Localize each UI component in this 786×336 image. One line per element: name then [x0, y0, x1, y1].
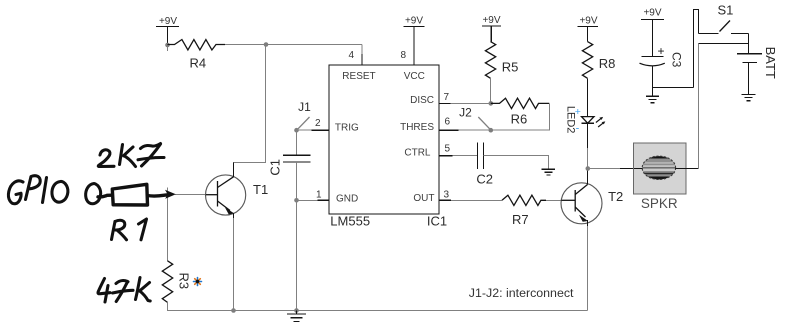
ground symbol at C3: [646, 88, 659, 103]
svg-text:DISC: DISC: [410, 95, 434, 106]
svg-text:+9V: +9V: [579, 16, 597, 27]
junction J1 node: [294, 128, 299, 133]
capacitor C2: [476, 143, 493, 187]
svg-text:+9V: +9V: [159, 16, 177, 27]
svg-text:THRES: THRES: [400, 122, 434, 133]
power +9V supply for R5: [482, 15, 501, 42]
wire SPKR left terminal: [588, 168, 621, 170]
svg-text:OUT: OUT: [413, 193, 434, 204]
ground rail wire: [234, 310, 588, 312]
resistor R5: [485, 42, 518, 79]
junction GND node: [294, 198, 299, 203]
svg-text:8: 8: [400, 50, 406, 61]
pin 8 VCC stub: [400, 50, 413, 65]
wire battery minus to ground: [748, 63, 750, 95]
svg-text:+: +: [657, 44, 664, 58]
wire OUT to R7: [451, 199, 502, 201]
wire TRIG to J1: [297, 129, 312, 131]
handwritten arrowhead into base wire: [165, 190, 176, 199]
junction T1 emitter rail: [231, 308, 236, 313]
jumper J2: [459, 106, 490, 130]
svg-text:+9V: +9V: [405, 16, 423, 27]
wire CTRL to C2: [452, 155, 477, 157]
pin 2 TRIG stub: [311, 118, 329, 130]
wire LED2 to T2 collector junction: [587, 123, 589, 148]
resistor R6: [491, 98, 550, 126]
svg-text:BATT: BATT: [763, 47, 778, 79]
svg-text:7: 7: [444, 92, 450, 103]
wire base net to R3: [175, 194, 206, 196]
handwritten resistor R1 (box): [98, 184, 169, 205]
resistor R4: [168, 40, 226, 71]
svg-text:4: 4: [348, 50, 354, 61]
capacitor C1: [268, 155, 311, 175]
svg-text:CTRL: CTRL: [404, 147, 431, 158]
capacitor C3: [640, 44, 684, 68]
battery BATT: [737, 47, 778, 79]
svg-text:+9V: +9V: [643, 8, 661, 19]
IC U1 LM555 body: [329, 65, 439, 214]
resistor R3: [162, 261, 191, 303]
ground symbol at C2: [542, 169, 555, 175]
svg-text:LM555: LM555: [330, 214, 370, 229]
handwritten label R1: [112, 219, 147, 240]
junction rail ground node: [294, 308, 299, 313]
pin 7 DISC stub: [439, 92, 451, 103]
wire SPKR right terminal: [675, 168, 699, 170]
svg-text:R7: R7: [512, 212, 529, 227]
footnote asterisk icon by R3: [194, 278, 202, 286]
wire S1 left branch: [694, 10, 699, 88]
transistor T1: [206, 163, 269, 223]
wire C1 to GND junction: [296, 162, 298, 200]
wire T2 emitter down to bottom: [587, 226, 589, 311]
svg-text:GND: GND: [336, 193, 358, 204]
svg-text:T2: T2: [608, 189, 623, 204]
wire R4 to RESET net: [225, 44, 362, 46]
power +9V supply for C3: [641, 8, 664, 57]
svg-text:VCC: VCC: [404, 71, 425, 82]
resistor R8: [582, 42, 615, 79]
svg-text:TRIG: TRIG: [335, 122, 359, 133]
svg-text:1: 1: [316, 190, 322, 201]
svg-text:R5: R5: [502, 59, 519, 74]
wire into pin 4: [361, 45, 363, 57]
wire DISC pin to junction: [451, 102, 491, 104]
handwritten value 2K7: [98, 144, 164, 167]
wire GND junction down to rail: [296, 200, 298, 310]
junction node at R4 left: [165, 43, 170, 48]
ground symbol main: [287, 311, 306, 322]
handwritten label GPIO 0: [8, 176, 100, 204]
wire R6 right loop down to THRES net: [459, 103, 550, 130]
power +9V supply for VCC: [403, 16, 424, 56]
wire C2 to ground: [484, 156, 549, 169]
wire R5 to DISC junction: [490, 78, 492, 103]
wire R3 bottom to rail: [168, 302, 234, 310]
svg-text:5: 5: [445, 144, 451, 155]
svg-text:C1: C1: [268, 159, 283, 176]
wire R8 to LED2: [587, 78, 589, 116]
pin 6 THRES stub: [439, 117, 459, 131]
svg-text:3: 3: [444, 190, 450, 201]
svg-text:6: 6: [445, 117, 451, 128]
svg-text:LED2: LED2: [564, 106, 576, 134]
jumper J1: [297, 100, 311, 130]
power +9V supply for R8: [577, 16, 598, 42]
junction J2 node: [489, 128, 494, 133]
wire GND pin to junction: [297, 199, 318, 201]
handwritten value 47k: [98, 278, 150, 303]
svg-text:R4: R4: [190, 56, 207, 71]
svg-text:J1: J1: [298, 100, 311, 114]
svg-text:RESET: RESET: [342, 71, 375, 82]
pin 4 RESET stub: [348, 50, 361, 65]
LED LED2: [564, 106, 605, 135]
speaker SPKR: [634, 143, 687, 211]
svg-text:IC1: IC1: [427, 214, 447, 229]
pin 5 CTRL stub: [439, 144, 452, 156]
ground symbol at battery: [742, 94, 756, 100]
svg-text:SPKR: SPKR: [641, 196, 678, 211]
wire T1 emitter to rail: [233, 218, 235, 311]
wire SPKR to battery plus: [698, 44, 700, 169]
junction at top of T1 collector branch: [264, 42, 269, 47]
svg-text:J1-J2: interconnect: J1-J2: interconnect: [469, 286, 574, 300]
transistor T2: [561, 175, 623, 228]
switch S1: [699, 2, 749, 33]
wire J1 down to C1: [296, 130, 298, 155]
wire C3 to ground / S1 node: [653, 67, 694, 88]
resistor R7: [502, 195, 546, 227]
junction DISC node: [489, 101, 494, 106]
junction T2 collector / SPKR node: [586, 166, 591, 171]
wire R3 branch vertical: [167, 188, 169, 261]
lead SPKR left pin: [620, 168, 643, 170]
svg-text:S1: S1: [718, 2, 734, 17]
svg-text:R3: R3: [177, 273, 192, 290]
power +9V supply for R4: [156, 16, 179, 51]
pin 1 GND stub: [316, 190, 329, 201]
svg-text:+9V: +9V: [482, 15, 500, 26]
svg-text:C2: C2: [476, 172, 493, 187]
svg-text:T1: T1: [253, 182, 268, 197]
svg-text:2: 2: [315, 118, 321, 129]
svg-text:C3: C3: [669, 52, 683, 68]
wire S1 right to battery: [748, 34, 750, 54]
wire battery plus rail: [699, 43, 749, 45]
wire junction down to T1 collector: [234, 45, 266, 177]
wire R7 to T2 base: [546, 199, 561, 201]
pin 3 OUT stub: [439, 190, 451, 201]
svg-text:J2: J2: [459, 106, 472, 120]
svg-text:R6: R6: [511, 111, 528, 126]
svg-text:R8: R8: [599, 56, 616, 71]
